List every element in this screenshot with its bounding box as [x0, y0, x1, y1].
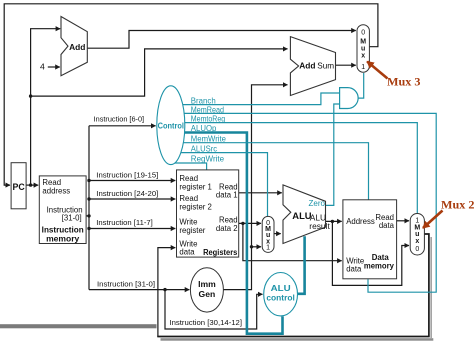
svg-text:[31-0]: [31-0]	[62, 214, 82, 223]
gray band bottom-left	[0, 324, 157, 328]
adder Add Sum (branch target)	[290, 37, 335, 96]
svg-text:x: x	[361, 53, 365, 60]
node bus instruction-out junction	[87, 214, 90, 217]
svg-text:Sum: Sum	[317, 62, 334, 71]
svg-text:Add: Add	[299, 61, 315, 71]
control unit oval	[157, 86, 185, 165]
svg-text:PC: PC	[12, 182, 25, 192]
svg-text:control: control	[266, 294, 295, 303]
svg-text:4: 4	[40, 62, 45, 72]
svg-text:data: data	[379, 221, 395, 230]
wire RegWrite signal to Registers	[172, 163, 207, 170]
svg-text:0: 0	[415, 246, 419, 253]
adder Add (PC+4)	[61, 17, 87, 76]
gray shadow of right wrap wire	[430, 237, 432, 338]
svg-text:address: address	[42, 187, 70, 196]
wire Instruction [31-0] to Imm Gen	[89, 289, 189, 291]
wire Add Sum output to Mux3 input 1	[336, 64, 356, 66]
svg-text:Address: Address	[346, 217, 375, 226]
svg-text:data 1: data 1	[216, 191, 238, 200]
node bus 19-15 junction	[87, 179, 90, 182]
node bus 24-20 junction	[87, 197, 90, 200]
wire Data memory Read data to Mux2 input 1	[397, 220, 409, 222]
wire ALU control output to ALU	[296, 236, 305, 294]
wire ALUSrc mux output to ALU	[274, 233, 281, 235]
svg-text:register 1: register 1	[179, 183, 212, 192]
mux3 (PCSrc)	[357, 25, 369, 72]
annotation Mux 3	[367, 62, 420, 89]
wire PC to Read address	[26, 184, 38, 186]
svg-text:Imm: Imm	[198, 279, 216, 289]
wire ALU result to Mux2 input 0	[332, 221, 409, 285]
wire Branch signal to AND gate	[172, 93, 340, 105]
wire ALUSrc signal to ALUSrc mux select	[172, 153, 268, 216]
wire ALU result to Data memory Address	[326, 220, 342, 222]
svg-text:ALUSrc: ALUSrc	[191, 143, 217, 153]
svg-text:Read: Read	[179, 174, 198, 183]
node PC-out junction	[29, 183, 32, 186]
svg-text:memory: memory	[364, 262, 395, 271]
svg-text:Control: Control	[158, 121, 184, 131]
svg-text:Mux 3: Mux 3	[387, 75, 421, 89]
svg-text:register 2: register 2	[179, 203, 212, 212]
svg-text:Instruction [11-7]: Instruction [11-7]	[96, 218, 153, 227]
svg-text:result: result	[309, 221, 330, 231]
node ALU-result junction	[331, 220, 334, 223]
ALUSrc mux	[262, 216, 274, 252]
svg-text:MemtoReg: MemtoReg	[191, 114, 226, 124]
wire Instruction [30,14-12] to ALU control	[165, 290, 263, 329]
svg-text:Instruction: Instruction	[42, 226, 84, 235]
svg-text:ALUOp: ALUOp	[191, 123, 217, 133]
svg-text:1: 1	[361, 64, 365, 71]
svg-text:data: data	[346, 264, 362, 273]
wire Mux2 output wrap to Registers Write data	[157, 234, 429, 337]
instruction memory box	[39, 176, 86, 244]
wire instruction memory output to bus	[86, 215, 89, 217]
svg-text:Gen: Gen	[199, 289, 216, 299]
mux2 (MemtoReg)	[410, 214, 424, 256]
svg-text:memory: memory	[46, 234, 80, 243]
wire MemRead signal to Data memory bottom	[172, 113, 436, 292]
svg-text:data 2: data 2	[216, 224, 238, 233]
svg-text:ALU: ALU	[271, 284, 291, 293]
registers box	[177, 170, 239, 257]
svg-text:Instruction [6-0]: Instruction [6-0]	[94, 115, 145, 124]
wire Zero to AND gate	[326, 104, 339, 205]
wire instruction bus vertical	[88, 126, 90, 290]
svg-text:M: M	[360, 39, 366, 46]
wire ALUOp signal to ALU control	[172, 133, 283, 334]
svg-text:data: data	[179, 248, 195, 257]
node imm-gen branch junction	[250, 245, 253, 248]
svg-text:Read: Read	[179, 194, 198, 203]
node read-data-2 junction	[241, 222, 244, 225]
svg-text:Mux 2: Mux 2	[441, 197, 474, 211]
wire Instruction [6-0] to Control	[89, 125, 156, 127]
svg-text:Instruction [30,14-12]: Instruction [30,14-12]	[170, 318, 243, 327]
svg-text:Registers: Registers	[203, 248, 238, 257]
data memory box	[343, 200, 397, 279]
ALU	[283, 185, 330, 244]
svg-text:Add: Add	[69, 42, 85, 52]
wire mux3 output wrap to PC input	[4, 4, 378, 185]
wire Read data 2 to Data memory Write data	[243, 223, 342, 260]
wire MemWrite signal to Data memory top	[172, 143, 369, 200]
svg-text:0: 0	[361, 29, 365, 36]
wire Imm Gen to ALUSrc mux input 1	[252, 246, 262, 248]
wire Instruction [11-7] to Write register	[89, 228, 175, 230]
imm gen oval	[190, 268, 223, 312]
svg-text:Zero: Zero	[309, 199, 326, 208]
wire constant 4 into Add	[48, 66, 60, 68]
wire Add output to Mux3 input 0	[87, 31, 356, 49]
wire Instruction [19-15] to Read register 1	[89, 180, 175, 182]
wire AND gate output to Mux3 select	[358, 73, 364, 98]
svg-text:1: 1	[266, 245, 270, 252]
node PC-branch junction	[29, 94, 32, 97]
svg-text:Instruction [19-15]: Instruction [19-15]	[96, 170, 158, 179]
svg-text:MemWrite: MemWrite	[191, 134, 227, 144]
svg-text:Instruction [24-20]: Instruction [24-20]	[96, 189, 158, 198]
wire Read data 2 to ALUSrc mux input 0	[239, 222, 261, 224]
node bus 11-7 junction	[87, 227, 90, 230]
ALU control oval	[264, 273, 298, 316]
wire PC up to Add	[31, 29, 61, 185]
PC register	[11, 163, 26, 209]
gray shadow of bottom wrap wire	[161, 338, 434, 341]
wire Read data 1 to ALU	[239, 192, 282, 194]
svg-text:RegWrite: RegWrite	[191, 154, 225, 164]
node 30-14-12 branch junction	[163, 288, 166, 291]
svg-text:x: x	[415, 238, 419, 245]
wire Instruction [24-20] to Read register 2	[89, 198, 175, 200]
wire Imm Gen output to branch adder	[223, 85, 287, 290]
svg-text:register: register	[179, 226, 205, 235]
annotation Mux 2	[423, 197, 474, 228]
wire MemtoReg signal to Mux2 select	[172, 123, 417, 214]
AND gate	[340, 88, 359, 109]
svg-text:u: u	[361, 46, 365, 53]
wire PC+4 to branch adder	[31, 49, 288, 96]
svg-text:Instruction [31-0]: Instruction [31-0]	[97, 280, 155, 289]
